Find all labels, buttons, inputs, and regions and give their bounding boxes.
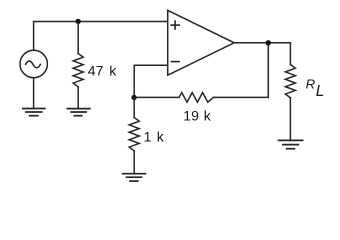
- resistor R3 19 k: [179, 93, 213, 103]
- wire node B to resistor 19 k: [134, 96, 179, 98]
- ground (below RL): [279, 140, 303, 148]
- op-amp minus input symbol: [172, 61, 180, 63]
- wire source bottom to ground: [33, 78, 35, 109]
- voltage source VS (AC sine source): [20, 50, 47, 77]
- wire output corner down to load resistor: [289, 43, 291, 65]
- wire node A down to resistor 47 k: [77, 22, 79, 54]
- ground (below 47 k): [67, 109, 90, 116]
- resistor R1 47 k: [73, 54, 83, 87]
- ground (below source): [23, 109, 45, 116]
- wire left vertical from top corner down to source: [33, 22, 35, 51]
- svg-text:L: L: [316, 83, 325, 100]
- node C output junction dot: [266, 40, 271, 45]
- op-amp plus input symbol: [171, 21, 179, 29]
- svg-text:1 k: 1 k: [144, 128, 165, 144]
- wire resistor 47 k to ground: [77, 87, 79, 109]
- node A junction dot: [76, 19, 81, 24]
- wire resistor 19 k right then up to output node (feedback): [213, 43, 268, 98]
- wire op-amp output: [234, 42, 290, 44]
- op-amp U1: [168, 10, 235, 75]
- node B junction dot: [131, 95, 136, 100]
- svg-text:47 k: 47 k: [88, 63, 117, 79]
- wire top from source node to op-amp noninverting input: [34, 21, 168, 23]
- wire resistor RL to ground: [289, 98, 291, 141]
- wire op-amp inverting input to node B: [134, 65, 168, 97]
- resistor RL load: [285, 65, 295, 98]
- svg-text:R: R: [306, 76, 316, 91]
- resistor R2 1 k: [129, 118, 139, 151]
- ground (below 1 k): [123, 174, 146, 181]
- svg-text:19 k: 19 k: [183, 108, 211, 124]
- wire node B down to resistor 1 k: [133, 97, 135, 117]
- wire resistor 1 k to ground: [133, 151, 135, 174]
